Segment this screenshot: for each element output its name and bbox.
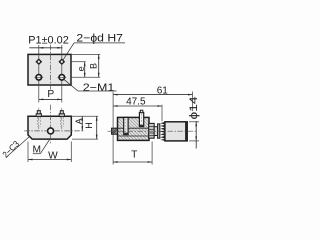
front block xyxy=(28,116,71,139)
svg-text:P1±0.02: P1±0.02 xyxy=(28,34,69,46)
svg-text:A: A xyxy=(74,118,84,124)
label 2-M1 xyxy=(64,79,117,94)
extension line top hole row right xyxy=(72,61,86,63)
dimension e xyxy=(76,62,86,78)
svg-text:P: P xyxy=(47,89,54,100)
svg-text:H: H xyxy=(84,122,94,129)
svg-text:61: 61 xyxy=(157,85,169,96)
dimension A xyxy=(74,116,84,131)
tapped hole M1 bottom-right xyxy=(57,75,66,81)
extension line T right xyxy=(151,142,153,165)
label 2-C3 xyxy=(0,136,29,159)
pin centerline right xyxy=(61,108,63,130)
dimension phi14 xyxy=(188,97,200,149)
extension line front top right xyxy=(72,115,98,117)
pin left base xyxy=(36,114,41,117)
side block hatched section xyxy=(118,117,150,140)
extension line front bottom right xyxy=(72,138,98,140)
dimension P1 line xyxy=(29,47,62,49)
neck xyxy=(154,127,157,136)
top view block xyxy=(28,54,71,85)
extension line phi14 bottom xyxy=(189,140,199,142)
pin hole hidden lines left xyxy=(37,117,40,127)
flange disc xyxy=(158,124,160,138)
plunger pin tip xyxy=(112,128,118,134)
center tapped hole M xyxy=(48,128,54,134)
extension line column right xyxy=(61,45,63,103)
pin right base xyxy=(59,114,64,117)
svg-text:47.5: 47.5 xyxy=(126,97,146,108)
dowel hole diamond top-right xyxy=(58,58,65,65)
extension line phi14 top xyxy=(189,121,199,123)
dimension P xyxy=(39,89,62,100)
extension line W right xyxy=(70,142,72,163)
side horizontal centerline xyxy=(108,130,198,132)
dimension H xyxy=(84,116,98,139)
dimension T xyxy=(113,150,152,163)
dimension W xyxy=(28,150,71,161)
pin left nub xyxy=(37,111,40,114)
dimension B xyxy=(89,54,100,77)
pin right nub xyxy=(60,111,63,114)
extension line 61 right xyxy=(192,92,194,112)
svg-text:W: W xyxy=(48,150,58,161)
svg-text:2−M1: 2−M1 xyxy=(83,82,115,94)
dimension 61 xyxy=(113,85,192,96)
dowel hole diamond top-left xyxy=(35,58,42,65)
right pin pressed in section xyxy=(139,110,143,126)
extension line column left xyxy=(38,45,40,103)
pin hole hidden lines right xyxy=(60,117,63,127)
pin centerline left xyxy=(38,108,40,130)
plunger shank bore top wall xyxy=(118,127,150,129)
front vertical centerline xyxy=(50,105,52,144)
label 2-phi-d H7 xyxy=(63,33,125,61)
tapped hole M1 bottom-left xyxy=(34,75,43,81)
vertical centerline xyxy=(50,45,52,90)
extension line bottom hole row right xyxy=(72,76,100,78)
svg-text:e: e xyxy=(76,66,86,71)
extension line 47.5 right xyxy=(161,105,163,122)
front horizontal centerline xyxy=(24,130,84,132)
knurl teeth xyxy=(160,122,165,141)
knob body xyxy=(165,122,187,141)
left bore slot in section xyxy=(124,117,128,134)
plunger shank bore bottom wall xyxy=(118,135,150,137)
svg-text:T: T xyxy=(131,150,137,161)
svg-text:B: B xyxy=(89,63,99,69)
shared extension line left xyxy=(112,92,114,165)
label M xyxy=(33,138,51,155)
svg-text:ϕ14: ϕ14 xyxy=(188,97,200,120)
extension line W left xyxy=(27,142,29,163)
threaded collar xyxy=(149,123,155,138)
dimension 47.5 xyxy=(113,97,162,108)
extension line top edge right xyxy=(72,53,100,55)
